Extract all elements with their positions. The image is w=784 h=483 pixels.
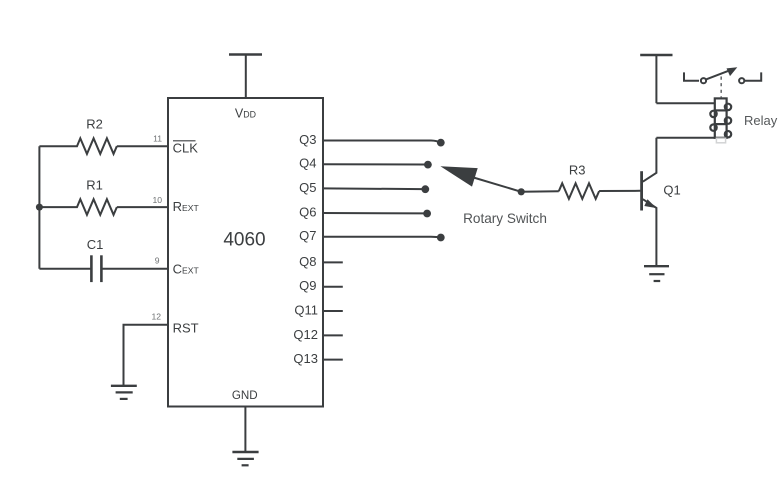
wire Q6 output xyxy=(323,212,424,214)
wire REXT pin 10 xyxy=(117,206,168,208)
svg-text:RST: RST xyxy=(173,321,199,336)
svg-text:R2: R2 xyxy=(86,117,103,132)
wire Q3 output xyxy=(323,141,440,143)
wire supply to relay coil top xyxy=(656,102,714,104)
wire GND pin xyxy=(244,407,246,452)
svg-text:VDD: VDD xyxy=(235,106,256,120)
svg-text:Q8: Q8 xyxy=(299,254,316,269)
wire Q8 stub xyxy=(323,261,343,263)
svg-text:Q6: Q6 xyxy=(299,204,316,219)
svg-text:Q9: Q9 xyxy=(299,278,316,293)
svg-text:Q5: Q5 xyxy=(299,180,316,195)
wire Q4 output xyxy=(323,163,425,165)
svg-text:CEXT: CEXT xyxy=(173,262,200,277)
node Q7 contact dot xyxy=(437,234,445,242)
svg-text:REXT: REXT xyxy=(173,199,200,214)
svg-text:4060: 4060 xyxy=(223,230,265,251)
svg-text:Q1: Q1 xyxy=(663,182,680,197)
svg-text:Q11: Q11 xyxy=(294,302,318,317)
svg-text:CLK: CLK xyxy=(173,141,199,156)
svg-text:GND: GND xyxy=(232,389,258,402)
svg-text:Q13: Q13 xyxy=(293,351,318,366)
wire Q1 collector to relay coil bottom xyxy=(656,137,714,139)
svg-text:R1: R1 xyxy=(86,177,103,192)
wire CLK pin 11 xyxy=(117,145,168,147)
wire Q7 output xyxy=(323,236,440,239)
ground (Q1 emitter) xyxy=(644,266,669,281)
svg-text:Q12: Q12 xyxy=(293,327,318,342)
ground (RST) xyxy=(111,386,137,399)
node Q5 contact dot xyxy=(421,185,429,193)
VDD power symbol xyxy=(229,55,262,99)
svg-text:11: 11 xyxy=(153,134,162,144)
wire R3 to Q1 base xyxy=(599,190,640,192)
svg-text:C1: C1 xyxy=(87,237,104,252)
rotary switch blade wire xyxy=(474,178,522,192)
svg-text:Q3: Q3 xyxy=(299,132,316,147)
wire wiper to R3 xyxy=(521,190,559,193)
wire RST pin 12 xyxy=(124,325,169,386)
wire Q5 output xyxy=(323,187,422,190)
power symbol (relay supply) xyxy=(640,55,672,103)
ground (GND) xyxy=(232,452,258,465)
svg-text:Relay: Relay xyxy=(744,113,778,128)
node Q4 contact dot xyxy=(424,161,432,169)
resistor R1 xyxy=(39,199,116,215)
wire Q13 stub xyxy=(323,359,343,361)
svg-text:R3: R3 xyxy=(569,163,586,178)
svg-text:9: 9 xyxy=(155,255,160,265)
relay contact switch xyxy=(684,67,761,97)
wire Q9 stub xyxy=(323,286,343,288)
svg-text:10: 10 xyxy=(152,195,162,205)
svg-text:12: 12 xyxy=(151,312,161,322)
junction node (R1/R2/C1) xyxy=(36,204,43,211)
capacitor C1 xyxy=(39,255,168,282)
relay K1 coil xyxy=(710,98,731,142)
svg-text:Q4: Q4 xyxy=(299,156,316,171)
IC U1 4060 body xyxy=(168,98,323,407)
left vertical bus wire xyxy=(38,146,40,269)
wire Q12 stub xyxy=(323,334,343,336)
resistor R3 xyxy=(559,183,599,199)
wire Q11 stub xyxy=(323,310,343,312)
svg-text:Rotary Switch: Rotary Switch xyxy=(463,211,547,226)
node Q3 contact dot xyxy=(437,139,445,147)
pin label CLK xyxy=(173,141,199,156)
node rotary switch wiper dot xyxy=(518,188,525,195)
rotary switch wiper arrow xyxy=(440,166,477,186)
resistor R2 xyxy=(39,138,116,154)
transistor Q1 xyxy=(642,138,657,266)
svg-text:Q7: Q7 xyxy=(299,228,316,243)
node Q6 contact dot xyxy=(423,210,431,218)
